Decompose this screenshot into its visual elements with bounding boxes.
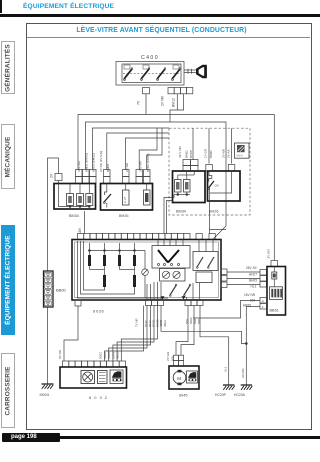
connector BB00 body [44,271,54,307]
BM34 variant bottom bus [173,192,191,198]
ground M003 [40,384,54,397]
C400 internal contact rail (dashed) [123,73,179,75]
wire label 5003 [189,317,193,324]
node pin 2V above BM34 [55,174,62,184]
module motor symbol 1 [162,271,169,278]
wire BM34 variant down to module 2 [167,201,173,234]
wire module to BB51 pin3 [227,284,260,286]
svg-text:7V: 7V [137,100,141,105]
motor icon inside 6032 [81,371,95,384]
svg-text:BM11: BM11 [185,150,189,158]
module sensor circle [142,251,149,299]
control module 6036 top pins [78,234,216,240]
wire bundle to 6032 w3 [113,306,151,362]
C400 switch contact 4 [172,65,181,80]
label 6045 [179,394,187,398]
C400 switch contact 2 [141,65,150,80]
svg-text:2V NR: 2V NR [222,148,226,158]
motor unit 6032 top pins [63,361,126,367]
svg-text:16V NR: 16V NR [244,293,256,297]
component F2 inside BH26 [144,184,151,206]
wire label 1K vertical [224,366,228,372]
wire label 45V NR [77,160,81,172]
C400 switch contact 1 [124,65,133,80]
ground HC20P [215,385,235,397]
connector BB51 lower pins A/B [260,298,267,310]
svg-text:AL1: AL1 [224,366,228,372]
svg-text:M003: M003 [40,393,50,397]
wire module to BB51 pin2 [227,278,260,280]
label 16V NR [244,293,256,297]
wire label 40RB [159,320,163,327]
C400 connector plug icon [196,65,207,78]
svg-text:BM05: BM05 [106,164,110,172]
label 6036 [93,309,104,314]
svg-text:2V BE (2V GR): 2V BE (2V GR) [99,151,103,172]
wire label 2V NR [161,95,165,106]
label BM34 left [69,214,79,218]
svg-text:C400: C400 [141,55,159,61]
svg-text:BM12: BM12 [172,98,176,107]
connector icon inside 6032 [98,371,108,384]
window lifter icon inside 6032 [110,370,123,384]
wire label 7V NR bottom [135,318,139,327]
wire label 500A [103,351,107,359]
wire label BH52 [146,154,150,172]
connector icon box in variant [235,143,250,158]
wire to BH26 pin 3 [139,128,157,170]
module internal top bus [88,243,145,251]
wire module pin to 6045 pin1 [176,306,188,356]
ground HC20A [234,385,252,397]
motor unit 6032 box [60,367,127,388]
module terminal bar 2 [103,251,106,270]
svg-text:M: M [177,376,181,381]
wire label 24V NR [139,160,143,172]
label HL1 [251,285,257,289]
wire label 46 V NR [178,146,182,158]
wire label 500D [107,351,111,359]
module motor symbol 2 [173,271,180,278]
svg-text:BM34: BM34 [69,214,79,218]
module terminal bar 6 [133,270,136,288]
wire bundle to 6032 w2 [109,306,147,362]
wire BH26 variant pin2 internal [210,171,232,193]
motor M inside 6045 [173,370,186,385]
module terminal bar 4 [133,251,136,270]
switch inside BH26 [103,184,111,208]
module terminal bar 1 [88,251,91,270]
wire to BH26 pin 1 [107,133,169,170]
variant enclosure (dashed) [169,128,250,215]
connector comb inside BB51 [270,287,283,300]
label 26V JN [246,266,257,270]
fuse inside BB51 [272,267,277,287]
switch assembly C400 body [116,62,184,86]
wire 2V pin to BB00 [48,158,59,271]
svg-text:HC20A: HC20A [234,393,246,397]
control module 6036 box [72,240,221,301]
wire label 500 r [185,319,189,324]
wire label 2V BE (2V GR) [99,151,103,172]
C400 pin group boxes 2/3/4 [168,88,193,94]
junction unit BH26 pins [104,170,151,184]
wire label 2V NR b [125,162,129,172]
wire bus C [93,128,170,170]
label AH27 [249,273,257,277]
wire label BH05 b [189,150,193,158]
svg-text:45V NR: 45V NR [77,160,81,172]
window lifter icon inside 6045 [187,371,198,383]
wire to BH26 pin 4 [147,128,162,170]
wire BM34 variant down to module [164,198,173,234]
module switch block right [193,252,218,271]
wire label 2V [50,173,54,178]
wire label M020 [116,351,120,359]
relay R2 in BM34 [77,184,84,206]
svg-text:4: 4 [262,305,264,309]
wire C400 pin group down [170,94,184,122]
label BB00 [56,288,67,293]
wire label 504Z [144,320,148,327]
svg-text:500: 500 [171,356,175,361]
relay BM34 internal common bus [59,184,91,208]
svg-text:6045: 6045 [179,394,187,398]
svg-text:6036: 6036 [93,309,104,314]
svg-text:1V GR: 1V GR [204,148,208,158]
wire label 1V GR [204,148,208,158]
fuse unit BB51 box [267,267,286,316]
svg-text:C.27: C.27 [123,196,127,203]
relay plate BM34 variant box [173,171,206,203]
wire label 508 [197,319,201,324]
junction unit BH26 variant box [208,171,241,201]
svg-text:HC20P: HC20P [215,393,227,397]
svg-text:HL1: HL1 [251,285,257,289]
wire label BM11 b [209,150,213,158]
relay plate BM34 variant pins [183,160,198,172]
svg-text:BB00: BB00 [56,288,67,293]
label BH26 variant [209,210,219,214]
wire module pin to 6045 pin2 [181,306,194,356]
module bottom pin row [146,296,204,305]
svg-text:BM34: BM34 [237,155,244,158]
svg-text:HC20A: HC20A [241,368,245,378]
module terminal bar 3 [118,251,121,270]
module logic block feed stubs [158,240,183,246]
wire label 18V [78,227,82,234]
wire label BM12b [106,164,110,172]
module logic block with V contacts [152,246,190,269]
wire label BM11 [185,150,189,158]
relay 1 inside BM34 variant [175,171,187,192]
label BH05 c [249,279,257,283]
wire 9V NR to 6032 [64,306,78,362]
svg-text:BH05: BH05 [189,150,193,158]
C400 pin 7 box [143,88,150,94]
svg-text:2V AA: 2V AA [227,148,231,158]
relay plate BM34 box [54,184,96,210]
svg-text:46 V NR: 46 V NR [178,146,182,158]
switch assembly C400 label [141,55,159,61]
motor unit 6045 top pins [173,355,183,366]
relay R3 in BM34 [86,184,93,206]
wire BB51 pinA left [193,301,260,319]
wire label 504X [111,352,115,359]
wire label 500 b [171,356,175,361]
svg-text:BB51: BB51 [270,309,279,313]
wire label 504A [148,320,152,327]
wire variant drop 3 [231,128,233,163]
motor unit 6045 box [169,366,199,389]
relay 2 inside BM34 variant [184,171,195,192]
C400 connector stub lines [184,69,196,74]
wire BB00 to ground [47,307,49,384]
svg-text:6032: 6032 [89,395,110,400]
module internal link row1-row2 [90,269,135,271]
label 6032 [89,395,110,400]
svg-text:BM11: BM11 [209,150,213,158]
wire bundle to 6032 w1 [105,306,144,362]
module bottom-left pin [75,300,81,306]
wire label HC20A vertical [241,368,245,378]
wire module bottom to ground HC20P [200,306,229,386]
wire label 2V AA [227,148,231,158]
svg-text:7V NR: 7V NR [135,318,139,327]
svg-text:508: 508 [197,319,201,324]
wire bus A [78,115,274,261]
svg-text:M020: M020 [116,351,120,359]
label 600 [250,299,256,303]
module internal drop wires [147,282,200,300]
svg-text:9V NR: 9V NR [58,349,62,359]
label BB51 [270,309,279,313]
wire bus B [86,122,227,240]
wire label BM05 [85,153,89,172]
module internal bracket wire 3 [84,241,105,290]
wire variant drop 1 [192,128,194,160]
wire label 500Z [99,352,103,359]
wire bundle to 6032 w4 [117,306,154,362]
junction unit BH26 variant pins [206,165,235,172]
junction unit BH26 box [101,184,153,211]
connector BB51 left pins [260,270,267,288]
wire label 2V NR c [222,148,226,158]
svg-text:GH: GH [215,184,219,188]
svg-text:BM34: BM34 [176,210,186,214]
svg-text:26V JN: 26V JN [246,266,257,270]
module right pins [221,269,227,288]
wire to BH26 pin 2 [126,138,170,170]
svg-text:AH27: AH27 [249,273,257,277]
wire label 503D [152,320,156,327]
svg-text:2V: 2V [50,173,54,178]
svg-text:2V GR: 2V GR [166,351,170,361]
wire label 50B [193,319,197,324]
wire BM34 to module pin [84,211,86,234]
wire G1 to ground HC20A [161,306,247,345]
wire label BM12 [172,98,176,107]
module terminal bar 5 [103,270,106,288]
module output switch 2 [184,284,191,296]
module internal bracket wire 1 [78,241,169,298]
switch inside BH26 variant [208,171,219,201]
wire label 7V [137,100,141,105]
wire variant drop 2 [208,128,210,163]
svg-text:2V NR: 2V NR [161,95,165,106]
connector BB51 top pin [271,261,278,267]
svg-text:18V: 18V [78,227,82,234]
wire C400 pin7 down [145,94,147,115]
svg-text:2V GR: 2V GR [267,248,271,258]
wire label 2V GR vertical [267,248,271,258]
module output switch 1 [170,284,177,296]
relay plate BM34 pins [76,170,97,184]
wire label BH05 [92,153,96,172]
module motor block [160,269,186,282]
svg-text:BH05: BH05 [249,279,257,283]
wire label 2V GR b [166,351,170,361]
wire BB51 pinB to ground HC20A [246,307,260,386]
svg-text:A: A [262,299,264,303]
C400 switch contact 3 [157,68,166,81]
wire module to BB51 pin1 [227,271,260,273]
label BH26 left [119,214,129,218]
svg-text:38EA: 38EA [163,320,167,327]
svg-text:BH26: BH26 [209,210,219,214]
module switch block feed stubs [199,240,213,252]
module internal bracket wire 2 [81,241,135,294]
module relay box [196,272,212,283]
svg-text:2V NR: 2V NR [125,162,129,172]
svg-text:24V NR: 24V NR [139,160,143,172]
wire BH26 variant down to module [210,201,227,234]
wire bundle to 6032 w5 [121,306,157,362]
svg-text:HB95: HB95 [243,304,251,308]
wire label MV08 [155,319,159,327]
wire label 38EA [163,320,167,327]
wire label 9V NR [58,349,62,359]
svg-text:BH26: BH26 [119,214,129,218]
label HB95 [243,304,251,308]
component C27 inside BH26 [123,184,130,206]
label BM34 variant [176,210,186,214]
relay R1 in BM34 [67,184,74,206]
